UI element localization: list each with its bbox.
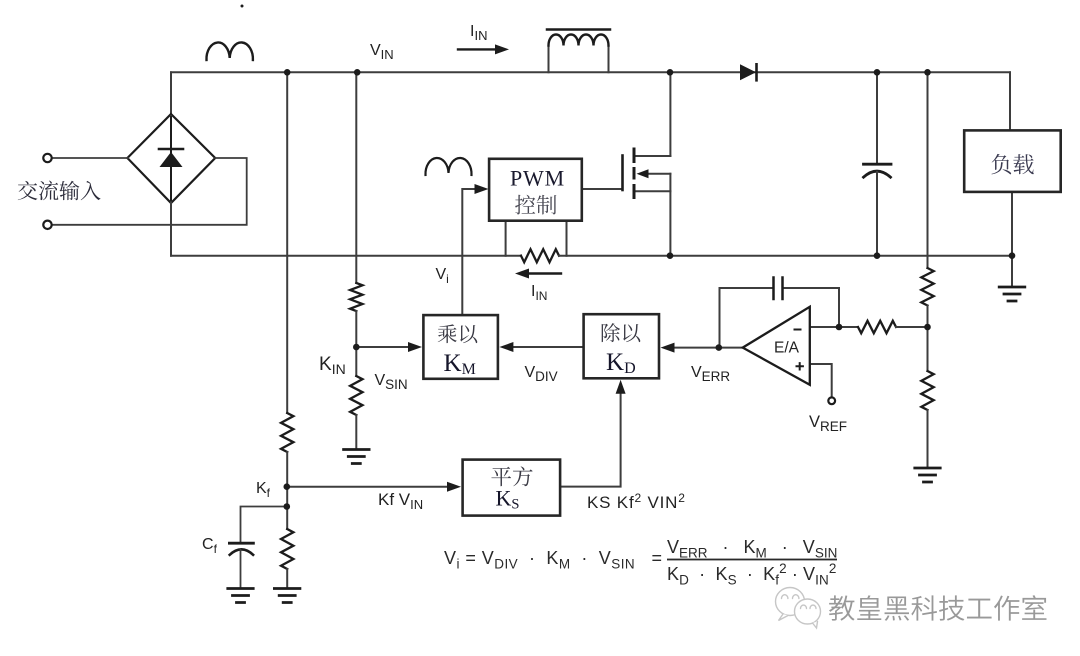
svg-text:VDIV: VDIV — [525, 364, 558, 384]
svg-text:Cf: Cf — [202, 536, 218, 556]
svg-text:VERR · KM · VSIN: VERR · KM · VSIN — [667, 537, 837, 561]
svg-text:E/A: E/A — [774, 340, 800, 357]
svg-text:KIN: KIN — [319, 354, 346, 377]
svg-text:VREF: VREF — [809, 413, 847, 434]
svg-text:VSIN: VSIN — [375, 372, 408, 392]
svg-text:VIN: VIN — [370, 42, 394, 62]
svg-text:VERR: VERR — [691, 364, 730, 384]
svg-text:Vi: Vi — [436, 266, 449, 286]
svg-text:KS Kf2 VIN2: KS Kf2 VIN2 — [587, 491, 686, 512]
svg-text:Kf VIN: Kf VIN — [378, 490, 423, 512]
svg-text:PWM: PWM — [510, 166, 565, 191]
svg-text:IIN: IIN — [531, 283, 547, 303]
svg-text:IIN: IIN — [470, 23, 487, 43]
svg-text:KD · KS · Kf2 · VIN2: KD · KS · Kf2 · VIN2 — [667, 561, 836, 588]
svg-text:Kf: Kf — [256, 480, 271, 500]
svg-text:Vi = VDIV · KM · VSIN =: Vi = VDIV · KM · VSIN = — [444, 548, 662, 572]
